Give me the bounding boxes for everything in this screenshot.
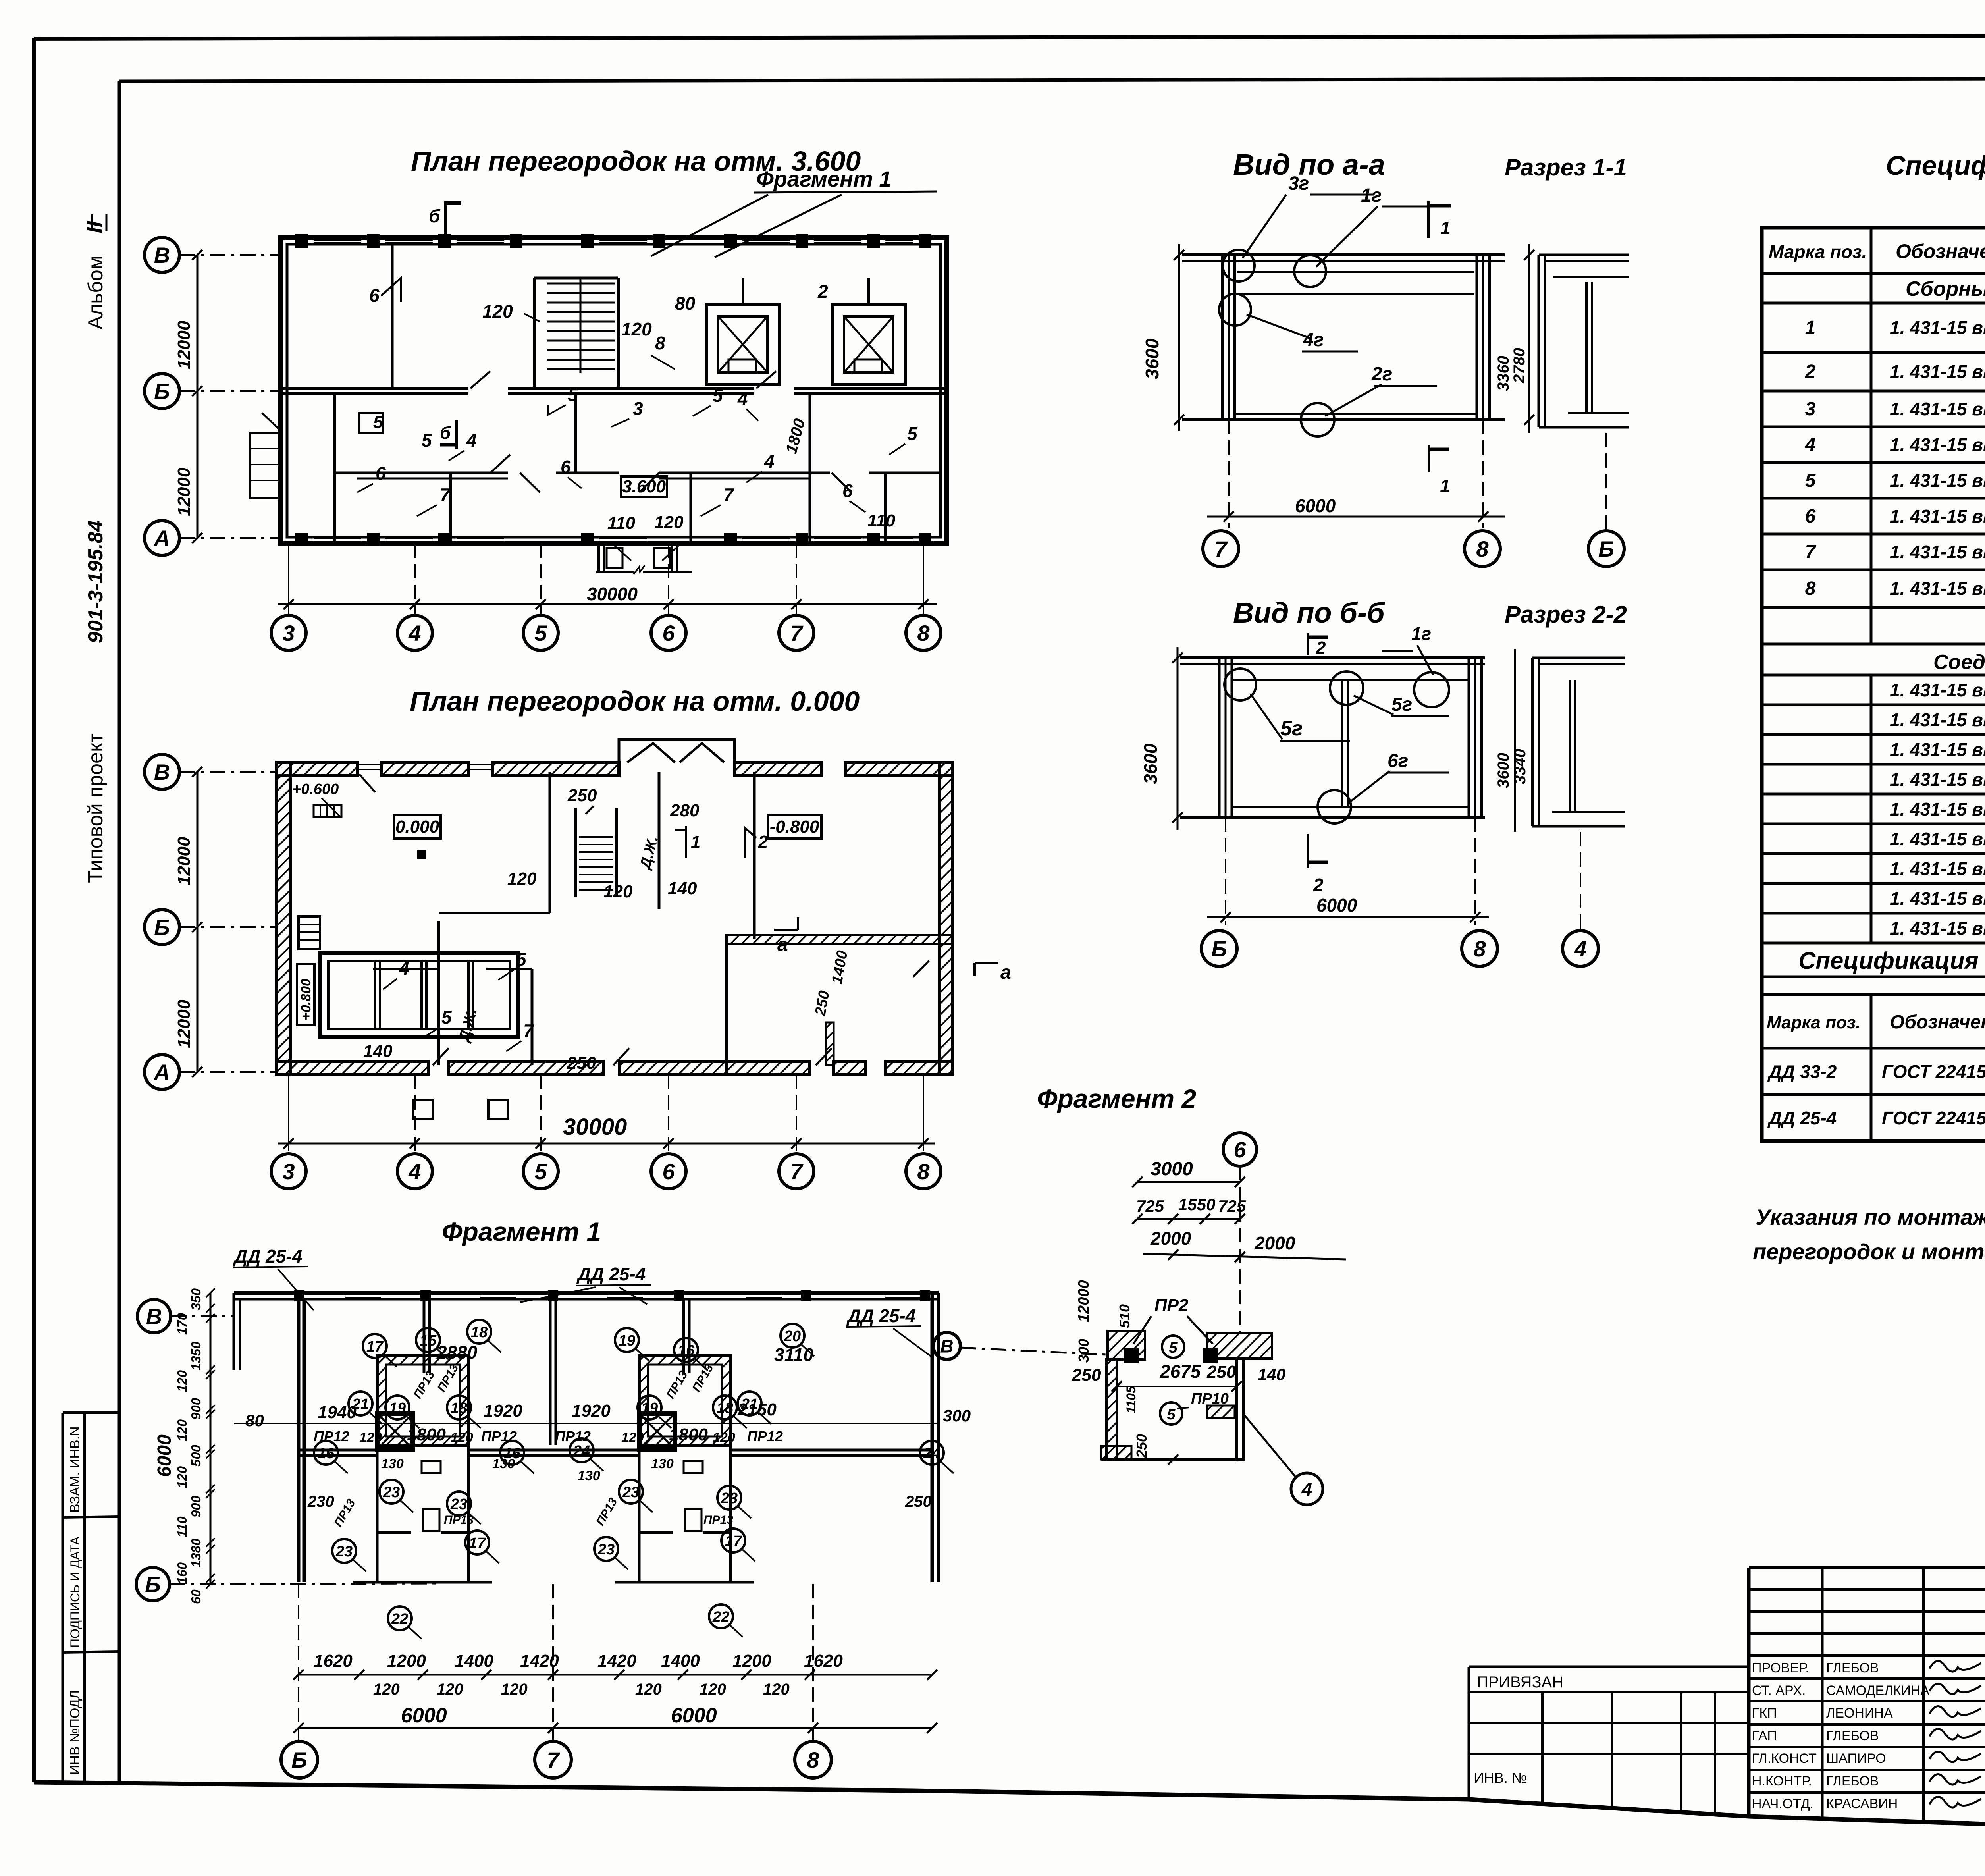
svg-text:4: 4	[1805, 434, 1816, 455]
svg-text:8: 8	[917, 1159, 930, 1184]
svg-text:120: 120	[635, 1681, 662, 1698]
svg-text:4: 4	[1301, 1479, 1312, 1500]
svg-text:3110: 3110	[774, 1344, 813, 1365]
svg-text:2: 2	[758, 832, 768, 852]
fragment1 position circle 20	[781, 1324, 804, 1348]
fragment1 axis circle V right	[933, 1332, 960, 1359]
fragment1 upper wall stub left	[423, 1299, 426, 1373]
fragment1 position circle 21	[738, 1392, 761, 1415]
plan1 middle wall	[281, 387, 468, 390]
svg-text:300: 300	[1075, 1339, 1092, 1363]
svg-text:80: 80	[245, 1411, 264, 1430]
svg-text:7: 7	[523, 1020, 534, 1041]
svg-text:3: 3	[1805, 399, 1816, 420]
plan1 door swings	[490, 455, 510, 473]
plan2 hatched stub wall x2080	[826, 1022, 834, 1065]
svg-text:140: 140	[363, 1041, 393, 1061]
fragment2 hatch block small	[1207, 1406, 1235, 1418]
svg-text:2150: 2150	[737, 1400, 777, 1419]
svg-text:В: В	[154, 243, 170, 268]
svg-text:120: 120	[451, 1430, 473, 1445]
svg-text:120: 120	[763, 1681, 790, 1698]
svg-text:8: 8	[1473, 936, 1486, 961]
plan2 left wall	[277, 762, 290, 1075]
svg-text:5: 5	[534, 621, 547, 646]
svg-text:СТ. АРХ.: СТ. АРХ.	[1752, 1683, 1806, 1698]
vid a-a grid circle 8	[1465, 531, 1500, 567]
svg-text:120: 120	[507, 869, 537, 889]
svg-text:725: 725	[1136, 1197, 1164, 1215]
vid b-b middle panel joint	[1341, 680, 1343, 807]
svg-text:19: 19	[619, 1332, 635, 1349]
svg-text:5г: 5г	[1391, 694, 1412, 715]
plan1 inner wall line	[287, 244, 940, 537]
spec table horizontal lines	[1762, 272, 1985, 275]
plan1 shaft unit 1	[706, 305, 779, 384]
fragment1 core A lower room	[376, 1449, 379, 1582]
svg-text:Сборные: Сборные	[1906, 278, 1985, 301]
svg-text:1420: 1420	[597, 1651, 636, 1671]
svg-text:23: 23	[383, 1484, 400, 1501]
svg-text:16: 16	[318, 1445, 335, 1462]
vid a-a right post	[1476, 255, 1478, 420]
spec table verticals	[1870, 228, 1873, 644]
svg-text:1. 431-15 вып.3: 1. 431-15 вып.3	[1890, 506, 1985, 526]
fragment1 top wall	[234, 1291, 939, 1295]
svg-text:19: 19	[389, 1400, 406, 1417]
vid b-b grid circle 8	[1462, 931, 1497, 966]
plan2 level mark +0.800 vertical	[297, 964, 314, 1025]
fragment1 core B walls	[639, 1356, 730, 1445]
svg-text:23: 23	[450, 1496, 467, 1513]
svg-text:II: II	[82, 220, 107, 233]
svg-text:7: 7	[547, 1747, 560, 1772]
vid a-a bottom dim 6000	[1228, 420, 1230, 528]
svg-text:510: 510	[1116, 1304, 1133, 1328]
svg-text:1. 431-15 вып.3: 1. 431-15 вып.3	[1890, 470, 1985, 491]
vid a-a inner line	[1237, 293, 1474, 295]
fragment2 dim line mid	[1117, 1386, 1237, 1387]
svg-text:120: 120	[621, 1430, 644, 1445]
fragment2 bottom line	[1101, 1458, 1243, 1461]
svg-text:250: 250	[905, 1493, 932, 1510]
fragment1 right wall	[931, 1293, 934, 1582]
razrez 1-1 dims	[1528, 244, 1530, 433]
plan2 tank ladder	[299, 916, 320, 949]
fragment1 position circle 23	[717, 1486, 741, 1510]
svg-text:120: 120	[482, 301, 513, 322]
svg-text:7: 7	[790, 621, 804, 646]
plan1 axis line B	[179, 390, 282, 392]
svg-text:19: 19	[641, 1400, 658, 1417]
plan1 axis line A	[179, 537, 282, 539]
plan1 partition x2040	[809, 394, 811, 544]
plan2 label a-section right outer	[975, 962, 998, 964]
svg-text:120: 120	[603, 882, 633, 901]
fragment1 left wall stub	[233, 1293, 235, 1370]
svg-text:2: 2	[817, 281, 828, 302]
plan2 tank block	[320, 953, 518, 1037]
inner frame top	[119, 78, 1985, 81]
fragment1 position circle 22	[709, 1604, 733, 1628]
svg-text:60: 60	[189, 1589, 203, 1604]
svg-text:30000: 30000	[587, 584, 638, 604]
svg-text:1. 431-15 вып.3: 1. 431-15 вып.3	[1890, 680, 1985, 700]
plan2 outer walls hatched	[277, 762, 357, 776]
svg-text:22: 22	[712, 1609, 729, 1625]
svg-text:15: 15	[420, 1332, 437, 1349]
svg-text:а: а	[1000, 962, 1011, 983]
plan2 left dim line	[197, 772, 198, 1072]
svg-text:ПР12: ПР12	[481, 1428, 517, 1444]
fragment1 position circle 23	[380, 1480, 403, 1504]
razrez 2-2 dims	[1514, 649, 1516, 832]
plan1 outer wall	[281, 238, 947, 544]
fragment1 bottom dim line 2	[299, 1727, 932, 1729]
fragment2 right wall lines	[1235, 1359, 1238, 1461]
svg-text:12000: 12000	[174, 837, 194, 885]
fragment1 grid circle 7	[535, 1741, 571, 1778]
fragment1 upper wall stub right	[682, 1299, 685, 1373]
fragment1 core B x-box	[639, 1413, 675, 1449]
plan1 fragment1 leader 1	[651, 195, 768, 256]
plan1 stair top wall	[534, 277, 618, 280]
plan1 axis circle V	[145, 237, 179, 272]
svg-text:САМОДЕЛКИНА: САМОДЕЛКИНА	[1826, 1683, 1929, 1698]
fragment1 corridor wall left	[299, 1449, 377, 1452]
plan2 section arrow 1	[685, 826, 687, 858]
fragment2 pos circle 5 lower	[1160, 1402, 1182, 1425]
fragment1 position circle 23	[332, 1539, 356, 1563]
svg-text:1. 431-15 вып.3: 1. 431-15 вып.3	[1890, 710, 1985, 730]
svg-text:1. 431-15 вып.3: 1. 431-15 вып.3	[1890, 888, 1985, 909]
fragment1 position circle 16	[500, 1441, 524, 1465]
svg-text:2: 2	[1805, 361, 1816, 382]
svg-text:1: 1	[1440, 476, 1450, 496]
svg-text:120: 120	[621, 319, 652, 339]
plan2 partition x1385	[549, 772, 551, 913]
plan2 partition x1105 lower	[437, 921, 440, 1065]
plan1 axis circle A	[145, 521, 179, 555]
fragment1 position circle 23	[447, 1492, 471, 1515]
svg-text:4: 4	[737, 388, 748, 409]
svg-text:Марка поз.: Марка поз.	[1769, 241, 1867, 262]
plan1 grid circle 4	[397, 615, 432, 650]
svg-text:1: 1	[1805, 317, 1816, 338]
svg-text:7: 7	[440, 484, 451, 505]
svg-text:1620: 1620	[314, 1651, 353, 1671]
plan2 window lines top	[357, 764, 381, 765]
svg-text:6000: 6000	[154, 1434, 175, 1477]
svg-text:1400: 1400	[455, 1651, 493, 1671]
svg-text:7: 7	[723, 484, 734, 505]
svg-text:3600: 3600	[1140, 743, 1161, 784]
svg-text:3000: 3000	[1151, 1159, 1193, 1180]
svg-text:130: 130	[651, 1456, 674, 1471]
vid a-a top beam	[1182, 253, 1505, 256]
svg-text:В: В	[154, 760, 170, 785]
svg-text:80: 80	[675, 293, 696, 314]
plan1 fragment1 leader 2	[715, 195, 842, 257]
fragment1 grid circle 8	[795, 1741, 831, 1778]
plan2 axis circle B	[179, 926, 278, 928]
svg-text:130: 130	[578, 1468, 600, 1483]
svg-text:12000: 12000	[174, 320, 194, 369]
svg-text:6000: 6000	[1316, 895, 1357, 916]
svg-text:130: 130	[381, 1456, 404, 1471]
svg-text:6000: 6000	[1295, 496, 1336, 516]
fragment2 column mark left	[1124, 1348, 1139, 1363]
svg-text:Соединительные: Соединительные	[1933, 651, 1985, 674]
plan2 grid circle 6	[651, 1154, 686, 1189]
svg-text:3360: 3360	[1495, 356, 1512, 391]
svg-text:4: 4	[408, 1159, 421, 1184]
svg-text:ГОСТ 22415-77: ГОСТ 22415-77	[1882, 1108, 1985, 1128]
svg-text:5: 5	[1169, 1340, 1178, 1356]
fragment1 core B lower room	[638, 1449, 641, 1582]
svg-text:120: 120	[373, 1681, 400, 1698]
svg-text:Обозначение: Обозначение	[1890, 1012, 1985, 1033]
fragment1 position circle 22	[388, 1606, 412, 1630]
fragment1 position circle 17	[721, 1529, 745, 1552]
plan2 porch door left	[627, 743, 675, 762]
svg-text:ВЗАМ. ИНВ.N: ВЗАМ. ИНВ.N	[67, 1426, 83, 1513]
svg-text:б: б	[429, 206, 441, 226]
fragment1 grid circle B	[281, 1741, 318, 1778]
svg-text:ПР12: ПР12	[314, 1428, 349, 1444]
svg-text:КРАСАВИН: КРАСАВИН	[1826, 1796, 1898, 1811]
svg-text:30000: 30000	[563, 1114, 627, 1140]
fragment1 axis circle B left	[136, 1568, 170, 1601]
plan1 partition x1450	[574, 394, 577, 473]
svg-text:120: 120	[700, 1681, 726, 1698]
fragment1 position circle 18	[713, 1396, 737, 1419]
fragment1 horizontal dim line y3585	[234, 1423, 939, 1424]
svg-text:0.000: 0.000	[395, 817, 439, 837]
svg-text:ДД 25-4: ДД 25-4	[576, 1264, 646, 1284]
plan1 partition x1135	[449, 473, 452, 544]
fragment2 column mark right	[1203, 1348, 1218, 1363]
svg-text:Указания по монтажу и кре: Указания по монтажу и креплению панелей	[1756, 1205, 1985, 1230]
svg-text:4: 4	[764, 451, 775, 472]
svg-text:23: 23	[335, 1543, 353, 1560]
svg-text:22: 22	[391, 1611, 408, 1627]
fragment2 wall left vertical	[1106, 1359, 1117, 1460]
svg-text:2780: 2780	[1511, 348, 1528, 384]
vid b-b top beam	[1180, 656, 1485, 659]
svg-text:2000: 2000	[1254, 1233, 1295, 1253]
plan1 grid drop lines	[288, 544, 289, 615]
svg-text:5: 5	[422, 430, 432, 451]
plan1 stair right wall	[617, 278, 620, 388]
plan1 partition x2230	[884, 473, 887, 544]
fragment1 position circle 19	[385, 1396, 409, 1419]
svg-text:Разрез 1-1: Разрез 1-1	[1505, 154, 1627, 181]
plan2 axis circle A	[179, 1071, 278, 1073]
svg-text:3: 3	[633, 398, 643, 419]
fragment2 axis leader line from V	[960, 1348, 1106, 1355]
plan2 entrance porch top	[619, 740, 734, 762]
fragment1 left dim stack	[210, 1293, 212, 1584]
svg-text:ГЛ.КОНСТ: ГЛ.КОНСТ	[1752, 1751, 1817, 1766]
plan2 radiator top-left	[314, 805, 341, 817]
svg-text:ГКП: ГКП	[1752, 1706, 1777, 1721]
svg-text:5: 5	[1805, 470, 1816, 491]
svg-text:ГОСТ 22415-77: ГОСТ 22415-77	[1882, 1061, 1985, 1082]
svg-text:2: 2	[1316, 638, 1326, 657]
svg-text:5: 5	[534, 1159, 547, 1184]
sheet outer border top	[34, 35, 1985, 39]
razrez 1-1 grid circle B	[1605, 433, 1607, 531]
svg-text:1. 431-15 вып.3: 1. 431-15 вып.3	[1890, 578, 1985, 599]
svg-text:23: 23	[622, 1484, 639, 1501]
fragment1 position circle 23	[594, 1537, 618, 1561]
plan1 partition x988	[391, 244, 394, 388]
title block outer frame	[1749, 1566, 1985, 1569]
svg-text:900: 900	[189, 1495, 203, 1517]
svg-text:6: 6	[369, 285, 380, 306]
svg-text:18: 18	[717, 1400, 734, 1417]
svg-text:120: 120	[437, 1681, 463, 1698]
svg-text:7: 7	[1805, 542, 1817, 563]
svg-text:ГЛЕБОВ: ГЛЕБОВ	[1826, 1728, 1879, 1743]
svg-text:План перегородок на отм. 0.: План перегородок на отм. 0.000	[410, 686, 860, 717]
plan1 left dim line	[197, 255, 198, 538]
svg-text:6г: 6г	[1388, 750, 1408, 771]
svg-text:120: 120	[175, 1370, 189, 1392]
plan2 door swings	[433, 1048, 449, 1065]
left margin stamp strip	[62, 1413, 64, 1782]
vid a-a joint circle 2	[1294, 255, 1326, 287]
svg-text:ГАП: ГАП	[1752, 1728, 1777, 1743]
svg-text:Б: Б	[145, 1572, 161, 1597]
sheet bottom border	[34, 1782, 1985, 1844]
privyazan block outer	[1469, 1666, 1749, 1668]
svg-text:1380: 1380	[189, 1538, 203, 1568]
svg-text:Б: Б	[154, 379, 170, 404]
svg-text:ЛЕОНИНА: ЛЕОНИНА	[1826, 1706, 1893, 1721]
svg-text:2880: 2880	[436, 1342, 478, 1363]
svg-text:В: В	[146, 1304, 162, 1329]
svg-text:5: 5	[373, 413, 383, 432]
plan1 partition x843	[333, 394, 336, 544]
svg-text:120: 120	[175, 1466, 189, 1488]
plan1 grid circle 3	[271, 615, 306, 650]
plan1 grid circle 7	[779, 615, 814, 650]
razrez 2-2 grid circle 4	[1580, 832, 1581, 931]
fragment1 position circle 18	[447, 1396, 471, 1419]
svg-text:1: 1	[1440, 218, 1451, 238]
svg-text:6: 6	[1805, 506, 1816, 527]
plan2 partition x1660	[658, 772, 661, 909]
svg-text:1920: 1920	[572, 1401, 611, 1421]
title block small rows	[1749, 1588, 1985, 1591]
vid a-a grid circle 7	[1203, 531, 1239, 567]
svg-text:1г: 1г	[1361, 185, 1382, 206]
svg-text:2: 2	[1313, 875, 1324, 895]
svg-text:140: 140	[668, 879, 697, 898]
svg-text:3: 3	[282, 621, 295, 646]
plan2 partition y2440	[373, 968, 439, 970]
svg-text:1350: 1350	[189, 1341, 203, 1371]
plan1 bottom dim line 30000	[288, 544, 289, 613]
svg-text:4: 4	[408, 621, 421, 646]
plan2 stair	[574, 808, 577, 897]
fragment1 position circle 16	[314, 1441, 338, 1465]
vid b-b joint circle 3	[1414, 672, 1449, 707]
sheet outer border left	[32, 38, 36, 1782]
spec table outer frame	[1762, 228, 1985, 1141]
svg-text:24: 24	[573, 1443, 590, 1460]
svg-text:1800: 1800	[407, 1425, 446, 1444]
vid a-a joint circle 1	[1223, 250, 1255, 281]
svg-text:6: 6	[662, 621, 675, 646]
svg-text:1550: 1550	[1178, 1195, 1215, 1214]
svg-text:120: 120	[359, 1430, 382, 1445]
svg-text:ПР12: ПР12	[555, 1428, 591, 1444]
vid a-a left post	[1221, 255, 1224, 420]
svg-text:Вид по а-а: Вид по а-а	[1233, 148, 1385, 181]
vid a-a joint circle 3	[1219, 294, 1251, 326]
svg-text:3: 3	[282, 1159, 295, 1184]
svg-text:1920: 1920	[484, 1401, 522, 1421]
svg-text:1105: 1105	[1124, 1386, 1138, 1413]
svg-text:300: 300	[943, 1406, 971, 1425]
svg-text:+0.800: +0.800	[299, 979, 314, 1020]
svg-text:500: 500	[189, 1444, 203, 1467]
svg-text:Вид по б-б: Вид по б-б	[1233, 597, 1386, 629]
svg-text:120: 120	[713, 1430, 735, 1445]
svg-text:1. 431-15 вып.3: 1. 431-15 вып.3	[1890, 361, 1985, 382]
svg-text:130: 130	[492, 1456, 515, 1471]
svg-text:16: 16	[678, 1342, 695, 1359]
vid a-a joint circle 4	[1301, 403, 1334, 436]
svg-text:110: 110	[175, 1516, 189, 1537]
plan2 grid circle 3	[271, 1154, 306, 1189]
svg-text:3.600: 3.600	[622, 477, 666, 496]
fragment1 position circle 15	[416, 1328, 440, 1352]
plan2 bottom dim line 30000	[288, 1075, 289, 1151]
svg-text:12000: 12000	[1075, 1280, 1092, 1322]
inner frame left	[118, 81, 121, 1783]
svg-text:3600: 3600	[1495, 753, 1512, 788]
fragment1 grid drop lines	[298, 1584, 299, 1741]
svg-text:1. 431-15 вып.3: 1. 431-15 вып.3	[1890, 769, 1985, 790]
plan1 stair left wall	[533, 278, 536, 388]
svg-text:120: 120	[501, 1681, 528, 1698]
fragment1 position circle 18	[467, 1320, 491, 1344]
fragment1 position circle 19	[615, 1328, 639, 1352]
plan1 left annex stair	[250, 433, 281, 498]
svg-text:6: 6	[1233, 1137, 1246, 1162]
plan1 section mark b top	[444, 201, 447, 235]
plan2 grid circle 7	[779, 1154, 814, 1189]
svg-text:17: 17	[469, 1535, 486, 1552]
vid a-a left dim 3600	[1178, 244, 1180, 431]
privyazan grid horizontals	[1469, 1691, 1749, 1693]
fragment2 pos circle 5 upper	[1162, 1336, 1184, 1358]
svg-text:ПР13: ПР13	[444, 1514, 474, 1527]
svg-text:перегородок и монтажные уз: перегородок и монтажные узлы см. серию 1…	[1753, 1239, 1985, 1264]
svg-text:1. 431-15 вып.3: 1. 431-15 вып.3	[1890, 434, 1985, 455]
svg-text:250: 250	[1206, 1362, 1236, 1382]
svg-text:1. 431-15 вып.3: 1. 431-15 вып.3	[1890, 542, 1985, 562]
vid b-b left dim 3600	[1177, 647, 1179, 830]
svg-text:4г: 4г	[1303, 330, 1324, 351]
fragment2 wall top-left hatched	[1108, 1331, 1145, 1359]
svg-text:6000: 6000	[671, 1704, 717, 1727]
fragment1 position circle 24	[570, 1438, 594, 1462]
